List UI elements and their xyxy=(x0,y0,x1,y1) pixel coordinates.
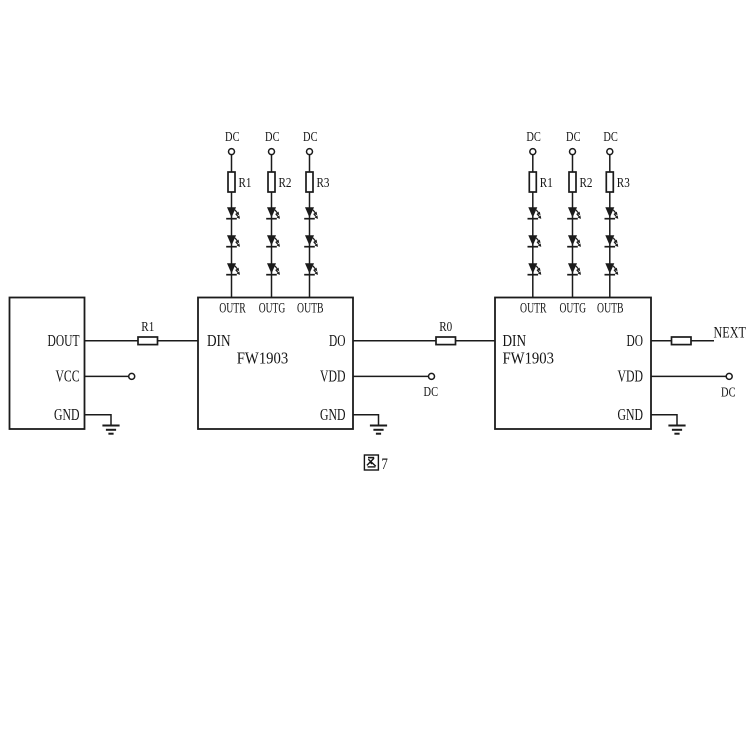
svg-text:DC: DC xyxy=(566,129,581,144)
svg-text:DIN: DIN xyxy=(207,331,231,350)
LED D2 U2-R xyxy=(528,235,542,247)
svg-text:GND: GND xyxy=(320,405,346,424)
svg-text:R2: R2 xyxy=(580,175,593,190)
terminal circle DC U2-G xyxy=(570,149,576,155)
svg-text:OUTR: OUTR xyxy=(520,301,547,317)
resistor R1 series xyxy=(138,337,158,345)
LED D3 U2-B xyxy=(605,263,619,275)
wire DO U2 to series resistor xyxy=(651,340,672,342)
LED D3 U2-R xyxy=(528,263,542,275)
svg-text:DC: DC xyxy=(265,129,280,144)
wire GND U2 to ground xyxy=(651,415,677,426)
svg-text:R1: R1 xyxy=(141,319,154,334)
resistor R1 U1-R xyxy=(228,172,235,192)
input connector box xyxy=(10,298,85,430)
LED D2 U1-G xyxy=(266,235,280,247)
LED D2 U2-G xyxy=(567,235,581,247)
wire DC to resistor U1-B xyxy=(309,155,311,172)
wire DC to resistor U2-G xyxy=(572,155,574,172)
LED D1 U1-G xyxy=(266,207,280,219)
wire resistor to chip pin U2-G xyxy=(572,192,574,298)
svg-text:R3: R3 xyxy=(617,175,630,190)
wire resistor to chip pin U1-G xyxy=(271,192,273,298)
LED D2 U2-B xyxy=(605,235,619,247)
resistor R2 U1-G xyxy=(268,172,275,192)
wire resistor to chip pin U2-B xyxy=(609,192,611,298)
terminal circle DC U1-G xyxy=(269,149,275,155)
svg-text:OUTG: OUTG xyxy=(259,301,286,317)
op IC U2 FW1903 body xyxy=(495,298,651,430)
resistor R2 U2-G xyxy=(569,172,576,192)
svg-text:OUTG: OUTG xyxy=(560,301,587,317)
svg-text:GND: GND xyxy=(54,405,80,424)
wire DOUT to R1 xyxy=(85,340,139,342)
ground symbol connector xyxy=(102,426,119,434)
terminal circle VCC xyxy=(129,373,135,379)
LED D3 U1-R xyxy=(226,263,240,275)
LED D3 U2-G xyxy=(567,263,581,275)
LED D1 U2-G xyxy=(567,207,581,219)
svg-text:DC: DC xyxy=(603,129,618,144)
wire DC to resistor U2-R xyxy=(532,155,534,172)
caption figure 7 (CJK tu) xyxy=(364,455,378,470)
terminal circle DC U1-B xyxy=(307,149,313,155)
svg-text:NEXT: NEXT xyxy=(714,324,747,341)
svg-text:VDD: VDD xyxy=(618,367,644,386)
wire VDD U2 to terminal xyxy=(651,375,726,377)
resistor series (NEXT) xyxy=(672,337,692,345)
terminal circle DC U2-R xyxy=(530,149,536,155)
LED D2 U1-R xyxy=(226,235,240,247)
svg-text:R3: R3 xyxy=(317,175,330,190)
LED D1 U2-R xyxy=(528,207,542,219)
wire GND (connector) to ground xyxy=(85,415,112,426)
LED D1 U1-R xyxy=(226,207,240,219)
svg-text:FW1903: FW1903 xyxy=(503,349,555,368)
svg-text:VDD: VDD xyxy=(320,367,346,386)
wire resistor to NEXT xyxy=(691,340,714,342)
terminal circle DC U1-R xyxy=(229,149,235,155)
wire VCC to terminal xyxy=(85,375,129,377)
svg-text:DC: DC xyxy=(721,385,736,400)
LED D3 U1-B xyxy=(304,263,318,275)
wire resistor to chip pin U1-R xyxy=(231,192,233,298)
LED D1 U1-B xyxy=(304,207,318,219)
wire resistor to chip pin U2-R xyxy=(532,192,534,298)
svg-text:DC: DC xyxy=(225,129,240,144)
ground symbol U2 xyxy=(668,426,685,434)
terminal circle VDD U1 xyxy=(429,373,435,379)
LED D2 U1-B xyxy=(304,235,318,247)
ground symbol U1 xyxy=(370,426,387,434)
svg-text:R1: R1 xyxy=(540,175,553,190)
svg-text:OUTB: OUTB xyxy=(297,301,324,317)
svg-text:DO: DO xyxy=(329,331,346,350)
wire VDD U1 to terminal xyxy=(353,375,429,377)
wire DO U1 to R0 xyxy=(353,340,436,342)
svg-text:DIN: DIN xyxy=(503,331,527,350)
svg-text:R1: R1 xyxy=(239,175,252,190)
svg-text:FW1903: FW1903 xyxy=(237,349,289,368)
terminal circle DC U2-B xyxy=(607,149,613,155)
resistor R1 U2-R xyxy=(529,172,536,192)
svg-text:DC: DC xyxy=(526,129,541,144)
svg-text:DC: DC xyxy=(424,384,439,399)
svg-text:DO: DO xyxy=(627,331,644,350)
wire DC to resistor U1-R xyxy=(231,155,233,172)
wire R1 to DIN U1 xyxy=(158,340,199,342)
wire resistor to chip pin U1-B xyxy=(309,192,311,298)
LED D3 U1-G xyxy=(266,263,280,275)
svg-text:OUTB: OUTB xyxy=(597,301,624,317)
svg-text:VCC: VCC xyxy=(56,367,80,386)
wire DC to resistor U2-B xyxy=(609,155,611,172)
svg-text:7: 7 xyxy=(381,456,388,473)
wire GND U1 to ground xyxy=(353,415,379,426)
terminal circle VDD U2 xyxy=(726,373,732,379)
svg-text:OUTR: OUTR xyxy=(219,301,246,317)
LED D1 U2-B xyxy=(605,207,619,219)
svg-text:DC: DC xyxy=(303,129,318,144)
resistor R0 series xyxy=(436,337,456,345)
wire R0 to DIN U2 xyxy=(456,340,496,342)
resistor R3 U2-B xyxy=(606,172,613,192)
wire DC to resistor U1-G xyxy=(271,155,273,172)
op IC U1 FW1903 body xyxy=(198,298,353,430)
svg-text:R0: R0 xyxy=(439,319,452,334)
svg-text:DOUT: DOUT xyxy=(48,331,80,350)
svg-text:R2: R2 xyxy=(279,175,292,190)
svg-text:GND: GND xyxy=(618,405,644,424)
resistor R3 U1-B xyxy=(306,172,313,192)
